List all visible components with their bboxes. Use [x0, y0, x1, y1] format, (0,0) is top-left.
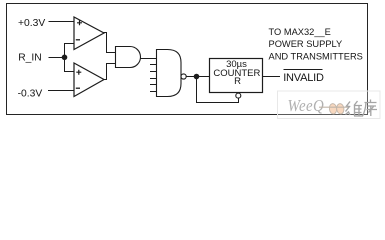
watermark CJK 库 — [363, 100, 378, 117]
wire +0.3V to comparator U1 non-inverting input — [49, 21, 75, 23]
wire -0.3V to comparator U2 inverting input — [48, 90, 74, 92]
U2 plus mark — [76, 70, 81, 75]
svg-text:POWER SUPPLY: POWER SUPPLY — [269, 39, 343, 49]
op-amp U1 (window comparator top) — [74, 17, 104, 50]
svg-text:R_IN: R_IN — [18, 53, 41, 64]
watermark CJK 维 — [346, 101, 364, 116]
wire node A riser — [64, 44, 66, 72]
watermark box — [278, 91, 381, 119]
svg-text:WeeQ: WeeQ — [288, 97, 325, 115]
wire node B to counter reset bubble — [197, 77, 239, 103]
svg-text:AND TRANSMITTERS: AND TRANSMITTERS — [269, 52, 363, 62]
watermark oo ovals — [329, 103, 337, 114]
svg-text:TO MAX32__E: TO MAX32__E — [269, 27, 331, 37]
svg-text:R: R — [234, 76, 241, 87]
counter reset bubble — [236, 93, 241, 98]
U2 minus mark — [76, 87, 80, 89]
border frame — [7, 4, 368, 115]
wire R_IN to node A — [49, 57, 65, 59]
wire counter output to INVALID — [263, 76, 281, 78]
svg-text:+0.3V: +0.3V — [18, 18, 45, 29]
U1 plus mark — [77, 20, 82, 25]
svg-text:-0.3V: -0.3V — [18, 89, 43, 100]
op-amp U2 (window comparator bottom) — [74, 63, 104, 97]
INVALID overline — [284, 69, 323, 71]
wire U3 output to counter — [186, 76, 209, 78]
wire node A to U2 non-inverting input — [64, 71, 74, 73]
wire node A to U1 inverting input — [64, 43, 74, 45]
counter U4 box — [210, 59, 263, 93]
node B junction dot — [194, 74, 200, 80]
NAND U3 input stubs — [150, 65, 157, 92]
NAND U3 output bubble — [181, 74, 186, 79]
node A junction dot — [62, 55, 68, 61]
NAND gate U3 (multi-input) — [157, 50, 182, 97]
svg-text:INVALID: INVALID — [283, 72, 324, 84]
wire U2 output to AND gate input 2 — [104, 64, 116, 80]
U1 minus mark — [76, 39, 80, 41]
watermark strike line — [319, 106, 349, 108]
wire AND gate output to NAND U3 input 1 — [140, 58, 157, 60]
AND gate — [116, 47, 141, 68]
wire U1 output to AND gate input 1 — [104, 33, 116, 53]
